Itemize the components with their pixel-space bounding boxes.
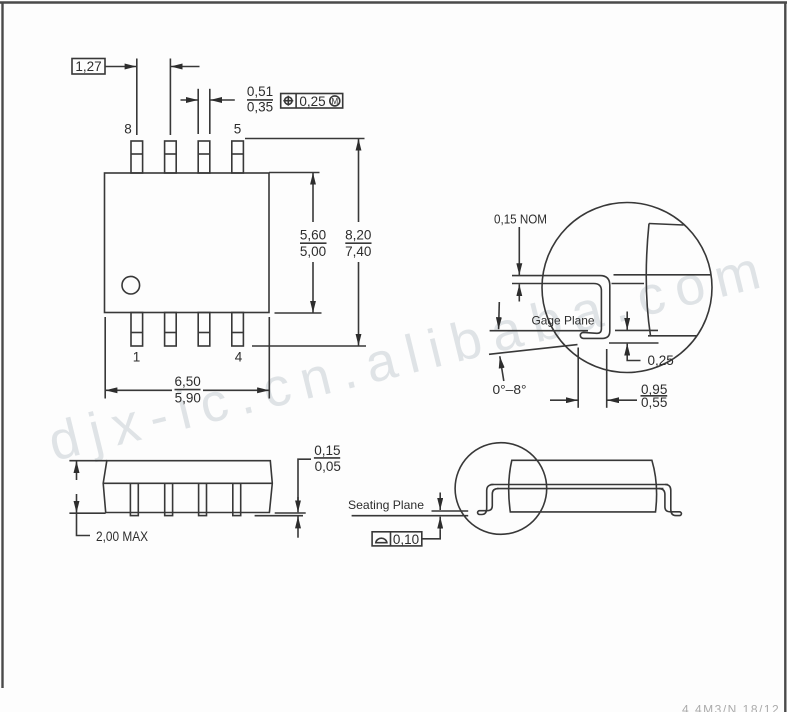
svg-text:0,10: 0,10 — [393, 532, 419, 547]
arrow 0-8 — [500, 356, 504, 381]
pin 5 (top) — [232, 141, 244, 173]
side pin 4 — [233, 483, 241, 515]
side pin 2 — [165, 483, 173, 515]
detail reference circle — [455, 443, 547, 535]
svg-text:0,25: 0,25 — [299, 94, 325, 109]
left lead — [478, 485, 499, 515]
detail view circle — [542, 203, 712, 373]
extension line body right bottom — [268, 317, 270, 399]
svg-text:5: 5 — [234, 122, 242, 137]
svg-text:7,40: 7,40 — [345, 244, 371, 259]
svg-text:1: 1 — [133, 350, 141, 365]
arrow standoff down — [297, 497, 299, 512]
standoff dimension flag — [298, 459, 311, 504]
extension line pin tips top right — [245, 138, 365, 140]
value 0,15/0,05 — [314, 443, 341, 474]
svg-text:8,20: 8,20 — [345, 228, 371, 243]
pin 7 (top) — [165, 141, 177, 173]
gage offset segment — [615, 329, 658, 331]
pin 6 (top) — [198, 141, 210, 173]
arrow 0,25 down — [626, 312, 628, 330]
pin number 5 — [234, 122, 242, 137]
extension lines 0,95/0,55 — [577, 348, 579, 408]
label 0,25 — [648, 353, 674, 368]
side pin 3 — [199, 483, 207, 515]
svg-text:0,55: 0,55 — [641, 395, 667, 410]
svg-text:0°–8°: 0°–8° — [493, 383, 527, 397]
feature control frame: flatness 0,10 — [372, 532, 422, 546]
svg-text:5,00: 5,00 — [300, 244, 326, 259]
corner ghost text — [682, 703, 780, 712]
extension line body top right — [269, 172, 320, 174]
pin 2 (bottom) — [165, 313, 177, 347]
pin 1 (bottom) — [131, 313, 143, 347]
label Gage Plane — [532, 314, 595, 328]
mold parting line — [103, 482, 272, 484]
svg-text:0,15: 0,15 — [314, 443, 340, 458]
arrow seating up — [439, 517, 441, 530]
arrow 0,15 down — [518, 227, 520, 275]
lead bottom line right of bend — [612, 283, 645, 285]
svg-text:0,05: 0,05 — [315, 459, 341, 474]
pin 6 edge extension lines — [197, 89, 199, 134]
extension top left — [69, 460, 106, 462]
package body — [509, 460, 657, 512]
value 0,95/0,55 — [641, 382, 667, 410]
extension line pin tips bottom right — [252, 345, 366, 347]
leader to seating arrow — [422, 530, 440, 539]
arrow lead width left — [181, 99, 199, 101]
right lead — [659, 485, 682, 516]
package edge in detail — [649, 224, 684, 226]
package body side view — [103, 461, 272, 513]
extension line body left bottom — [104, 317, 106, 399]
seating plane line — [352, 515, 469, 517]
pin 8 centerline — [136, 59, 138, 136]
dimension 2,00 MAX — [76, 461, 78, 480]
pin 1 indicator circle — [122, 276, 140, 294]
svg-text:4: 4 — [235, 350, 243, 365]
pin number 1 — [133, 350, 141, 365]
label 0-8 deg — [493, 383, 527, 397]
dimension 6,50/5,90 — [105, 389, 172, 391]
package body (top view) — [105, 173, 270, 313]
arrow standoff up — [297, 516, 299, 537]
pin 4 (bottom) — [232, 313, 244, 347]
dimension 1,27 boxed label — [72, 59, 105, 75]
arrow 1,27 left — [105, 66, 137, 68]
arrow 0,15 up — [518, 284, 520, 301]
value 0,51 / 0,35 — [247, 84, 273, 115]
lead outline in detail — [512, 276, 610, 339]
arrow 0,95 right — [607, 399, 637, 401]
arrow lead width right — [210, 99, 235, 101]
svg-text:Gage Plane: Gage Plane — [532, 314, 595, 328]
lead angle 0-8 reference line — [489, 345, 578, 355]
label Seating Plane — [348, 498, 424, 512]
arrow to gage plane — [498, 302, 501, 329]
dimension 5,60/5,00 — [312, 173, 314, 222]
svg-text:0,35: 0,35 — [247, 100, 273, 115]
svg-text:1,27: 1,27 — [75, 59, 101, 74]
svg-text:0,15 NOM: 0,15 NOM — [494, 212, 547, 227]
dimension 8,20/7,40 — [358, 139, 360, 222]
lead plane bottom line — [497, 488, 663, 490]
svg-text:0,25: 0,25 — [648, 353, 674, 368]
arrow seating down — [439, 493, 441, 511]
svg-text:2,00 MAX: 2,00 MAX — [96, 529, 148, 544]
extension line body bottom right — [275, 312, 322, 314]
pin number 8 — [124, 122, 132, 137]
svg-text:0,51: 0,51 — [247, 84, 273, 99]
watermark — [43, 240, 766, 472]
feature control frame: position 0,25 M — [281, 94, 343, 109]
pin number 4 — [235, 350, 243, 365]
package bottom extension — [275, 512, 306, 514]
svg-text:Seating Plane: Seating Plane — [348, 498, 424, 512]
lead tip level line — [432, 510, 469, 512]
svg-text:5,60: 5,60 — [300, 228, 326, 243]
svg-text:M: M — [331, 97, 338, 106]
pin 8 (top) — [131, 141, 143, 173]
seating level segment in detail — [609, 342, 659, 344]
svg-text:8: 8 — [124, 122, 132, 137]
pin 3 (bottom) — [198, 313, 210, 347]
lead top line right of bend — [614, 274, 712, 276]
gage plane line — [490, 330, 588, 332]
arrow 0,25 up with leader — [627, 347, 640, 361]
side pin 1 — [130, 483, 138, 515]
arrow 1,27 right — [171, 66, 200, 68]
pin 7 centerline — [169, 59, 171, 136]
extension bottom left — [69, 512, 105, 514]
label 0,15 NOM — [494, 212, 547, 227]
arrow 0,95 left — [550, 399, 578, 401]
seating extension — [255, 515, 303, 517]
svg-text:5,90: 5,90 — [175, 391, 201, 406]
svg-text:4 4M3/N 18/12: 4 4M3/N 18/12 — [682, 703, 780, 712]
svg-text:6,50: 6,50 — [174, 374, 200, 389]
lead plane top line — [491, 484, 668, 486]
